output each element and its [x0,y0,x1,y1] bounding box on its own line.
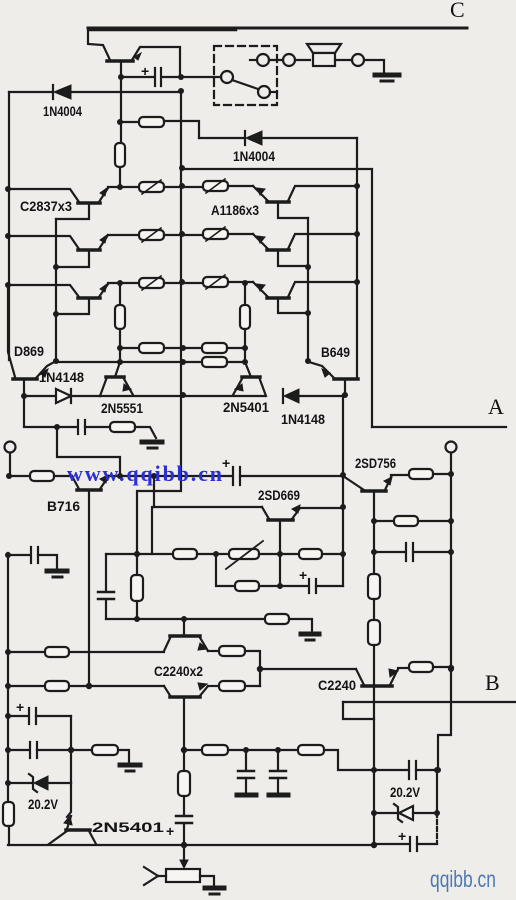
diode 1N4004 (left) [9,91,52,93]
svg-text:+: + [141,63,149,79]
variable resistor [229,549,259,559]
output terminal [446,442,457,453]
wire x152 [151,507,153,554]
svg-text:B649: B649 [321,344,350,360]
resistor (emitter row 651) [208,650,219,652]
svg-text:20.2V: 20.2V [390,784,421,800]
svg-text:www.qqibb.cn: www.qqibb.cn [67,461,222,486]
capacitor electrolytic (x184) [176,815,192,818]
resistor (row554 right) [299,549,322,559]
capacitor electrolytic (row 586) [308,579,310,593]
transistor C2837 #1 collector to x56 [56,205,89,219]
wire rail 669 [260,668,356,670]
capacitor electrolytic (row 716) [8,715,27,717]
wire x374 bottom [373,769,375,845]
svg-text:20.2V: 20.2V [28,796,59,812]
switch in relay box [182,76,221,78]
resistor (C2240 right emitter) [409,662,433,672]
svg-text:D869: D869 [14,343,44,359]
resistor (emitter x120 vertical) [119,283,121,305]
resistor (top vertical on x120) [120,77,122,143]
capacitor branch x106 [105,554,107,591]
svg-text:+: + [16,699,24,715]
wire rail 619 [106,618,265,620]
capacitor electrolytic (rail 476) [232,467,234,485]
resistor row 521 [374,520,394,522]
wire B716 collector [88,492,90,686]
svg-text:+: + [398,828,406,844]
resistor (row554 left) [173,549,197,559]
capacitor (row 770) [374,769,407,771]
wire trunk bottom [7,553,9,802]
resistor (bias top) [120,121,139,123]
wire x154 to rail 507 [153,476,155,507]
relay dashed box [214,46,277,105]
capacitor (row 427) [57,426,77,428]
wire rail to driver [182,168,372,170]
resistor R-row2-left (slashed) [139,230,164,240]
svg-text:+: + [166,823,174,839]
wire bus resistor x137 [131,575,143,601]
resistor (emitter x245 vertical) [244,283,246,305]
transistor Q-top [88,28,110,60]
resistor (base row 652) [8,651,45,653]
resistor (2SD756 emitter) [409,469,433,479]
potentiometer [166,869,200,882]
svg-text:+: + [299,567,307,583]
svg-text:B716: B716 [47,498,80,514]
resistor R-row3-left (slashed) [139,278,164,288]
transistor A1186 #3 [253,282,268,297]
resistor (trunk bottom) [3,802,14,826]
svg-text:B: B [485,670,500,695]
wire x24 down + RC row 427 [24,396,57,427]
capacitor (row 750 left) [8,749,28,751]
wire main bus [137,92,181,575]
svg-text:2N5401: 2N5401 [223,399,269,415]
svg-text:2N5401: 2N5401 [92,819,164,835]
capacitor row 552 [374,551,404,553]
resistor R-row1-left (slashed) [139,182,164,192]
resistor (row 586) [235,581,259,591]
wire left trunk [8,92,10,360]
resistor R-row2-right (slashed) [203,229,228,239]
svg-text:2SD669: 2SD669 [258,487,300,503]
resistor R-row1-right (slashed) [203,181,228,191]
resistor x374 lower [368,620,380,645]
resistor (rail 750 a) [202,745,228,755]
wire row 362 [56,361,202,363]
diode 1N4004 (second) [199,137,244,139]
resistor (base row 686) [8,685,45,687]
svg-text:C2240: C2240 [318,677,356,693]
arrow into pot [183,845,185,862]
wire x357 [356,138,358,378]
svg-text:C: C [450,0,465,22]
svg-text:C2837x3: C2837x3 [20,198,72,214]
svg-text:2N5551: 2N5551 [101,400,143,416]
wire row 586 [216,554,235,586]
wire 2SD756 collector x374 [373,493,375,574]
node B line [343,701,516,703]
wire 2SD669 collector [279,522,281,586]
resistor (rail 619) [265,614,289,624]
resistor (rail 750 b) [298,745,324,755]
wire x71 down to 2N5401 [67,783,71,817]
wire B jog [343,702,374,719]
resistor (row 427) [110,422,135,432]
svg-text:A1186x3: A1186x3 [211,202,259,218]
resistor row 362 [202,357,227,367]
resistor row 348 right [202,343,227,353]
wire feedback x57 [57,427,120,476]
capacitor to ground #2 [277,750,279,770]
wire rail 395 center [100,395,265,397]
svg-text:2SD756: 2SD756 [355,455,396,471]
wire below C2240 right [373,687,375,769]
wire top rail C [88,27,467,30]
svg-text:1N4004: 1N4004 [43,103,82,119]
wire x343 (B649 collector chain) [342,395,344,586]
node A line [372,426,506,428]
ground (pot) [205,886,224,891]
ground (rail 619) [301,632,319,637]
ground (speaker) [375,73,399,78]
connector circles [250,59,257,61]
resistor R-row3-right (slashed) [203,277,228,287]
capacitor C-top electrolytic [121,76,153,78]
resistor (emitter row 686) [208,685,219,687]
svg-text:1N4148: 1N4148 [39,369,84,385]
ground (row 750 left) [120,763,140,768]
capacitor electrolytic (row 844) [374,843,408,845]
ground (row 427) [142,440,162,445]
wire bottom rail [8,844,374,846]
svg-text:A: A [488,394,504,419]
resistor x374 upper [368,574,380,599]
input terminal [5,442,16,453]
capacitor to ground #1 [245,750,247,770]
transistor C2240 #2 [170,695,200,699]
wire x71 [70,716,72,783]
transistor C2837 #2 [8,236,79,249]
svg-text:+: + [222,455,230,471]
resistor (input) [9,475,30,477]
wire rail 750 right [184,749,202,751]
svg-text:1N4148: 1N4148 [281,411,325,427]
svg-text:1N4004: 1N4004 [233,148,275,164]
resistor (row 750 left) [92,745,118,755]
ground (555) [47,569,67,574]
wire x308 [307,218,309,361]
resistor row 348 left [120,347,139,349]
wire C2240#2 collector [183,698,185,750]
transistor C2837 #3 [8,285,79,297]
wire x56 [55,219,57,361]
wire rail 476 [108,475,232,477]
capacitor (trunk 555) [8,554,29,556]
wire row 554 [106,553,173,555]
svg-text:C2240x2: C2240x2 [154,663,203,679]
transistor A1186 #2 [253,234,268,249]
speaker [307,44,341,53]
resistor (x184 vertical 771) [183,750,185,771]
wire x437 [436,770,438,813]
svg-text:qqibb.cn: qqibb.cn [430,866,496,892]
